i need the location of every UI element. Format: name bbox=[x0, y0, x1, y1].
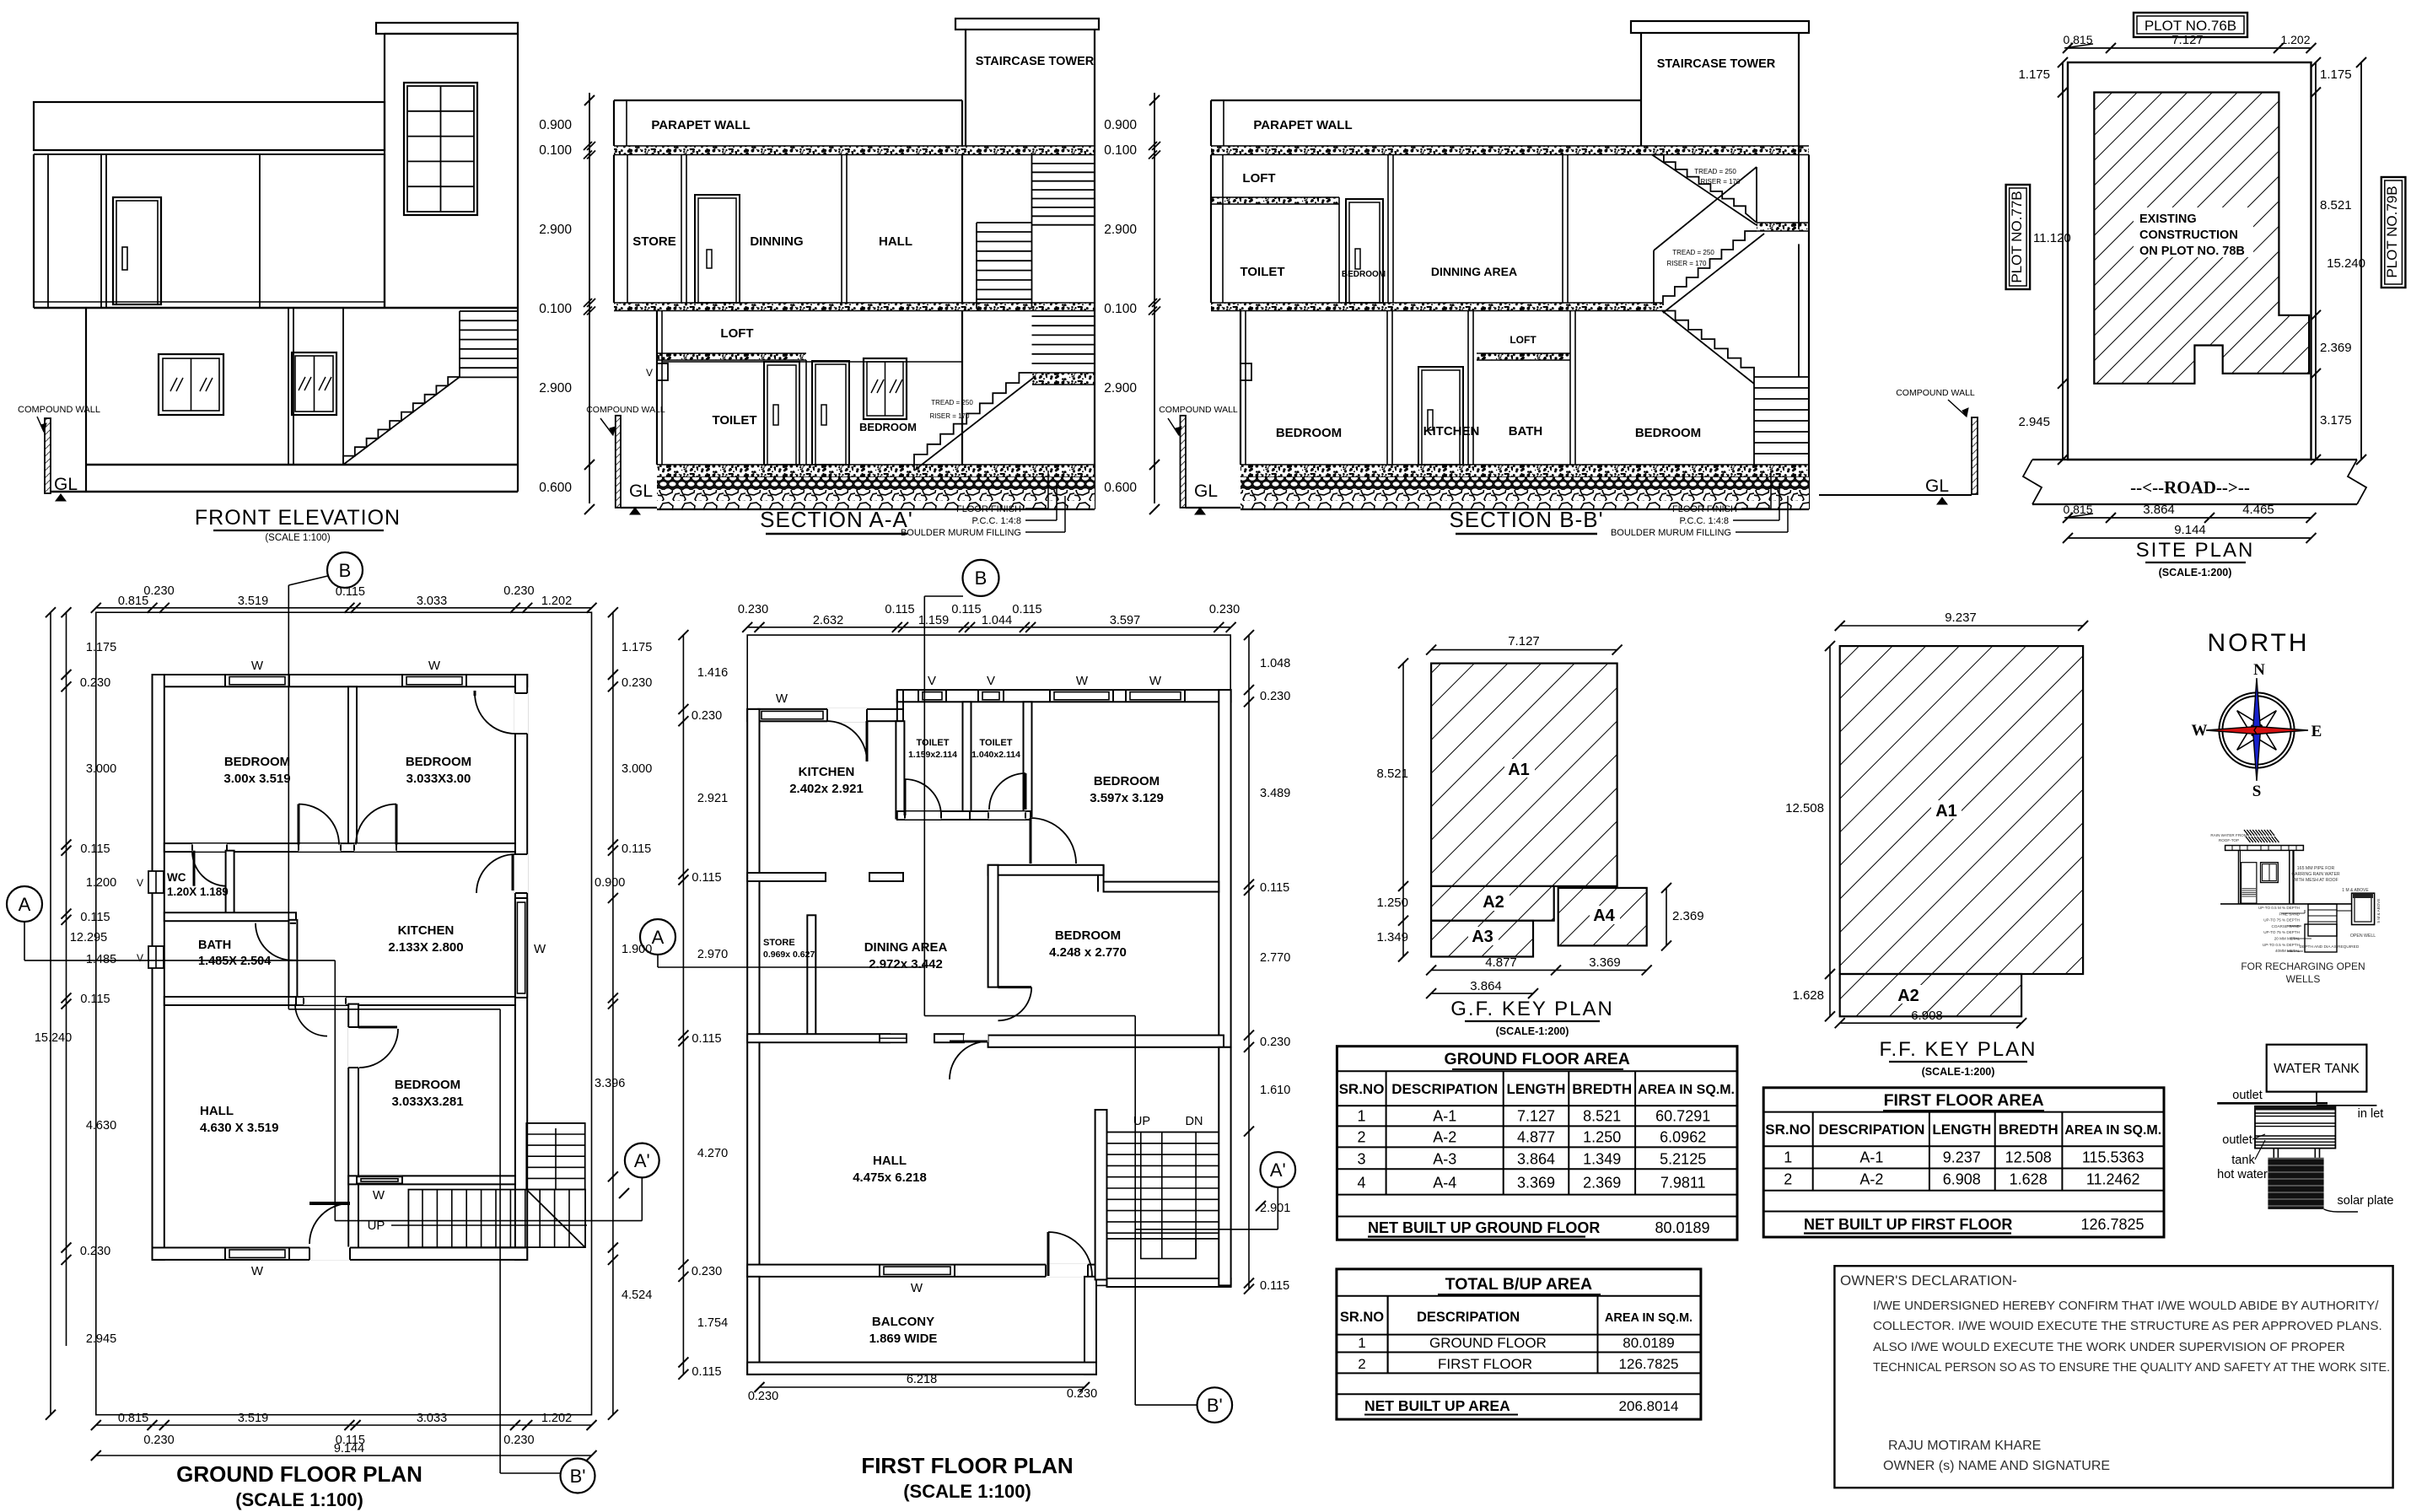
svg-text:tank: tank bbox=[2231, 1154, 2255, 1167]
section line A bbox=[24, 922, 25, 960]
svg-text:BEDROOM: BEDROOM bbox=[1055, 928, 1121, 943]
svg-text:A1: A1 bbox=[1508, 761, 1530, 779]
area A2 ff hatched bbox=[1840, 974, 2021, 1016]
svg-text:1.869 WIDE: 1.869 WIDE bbox=[869, 1332, 938, 1346]
bed2 left wall bbox=[988, 865, 998, 987]
svg-text:BOULDER MURUM FILLING: BOULDER MURUM FILLING bbox=[901, 528, 1021, 538]
svg-text:3: 3 bbox=[1357, 1151, 1365, 1168]
bath door arc bbox=[290, 923, 296, 960]
road strip bbox=[2032, 459, 2357, 460]
svg-text:DEPTH AND DIA AS REQUIRED: DEPTH AND DIA AS REQUIRED bbox=[2300, 944, 2360, 950]
svg-text:OWNER (s) NAME AND SIGNATURE: OWNER (s) NAME AND SIGNATURE bbox=[1883, 1459, 2110, 1473]
left dimension line bbox=[2062, 62, 2064, 460]
svg-text:2.632: 2.632 bbox=[813, 614, 843, 627]
svg-text:7.127: 7.127 bbox=[1508, 634, 1540, 648]
stair landing band bbox=[1032, 373, 1095, 385]
svg-text:2.133X 2.800: 2.133X 2.800 bbox=[388, 940, 463, 955]
dinning door bbox=[695, 195, 740, 303]
svg-text:0.115: 0.115 bbox=[692, 1365, 721, 1379]
svg-text:0.115: 0.115 bbox=[951, 603, 981, 616]
ground floor plan drawing bbox=[7, 552, 659, 1510]
svg-text:2.901: 2.901 bbox=[1260, 1202, 1290, 1215]
svg-text:7.9811: 7.9811 bbox=[1660, 1175, 1706, 1192]
svg-text:LOFT: LOFT bbox=[1242, 171, 1275, 186]
terrace boundary bbox=[747, 635, 1230, 1375]
svg-text:ALSO I/WE WOULD EXECUTE THE WO: ALSO I/WE WOULD EXECUTE THE WORK UNDER S… bbox=[1873, 1340, 2345, 1354]
svg-text:HALL: HALL bbox=[873, 1154, 907, 1168]
window W2 top wall bbox=[402, 674, 466, 687]
svg-text:0.100: 0.100 bbox=[1104, 302, 1137, 316]
svg-text:0.969x 0.627: 0.969x 0.627 bbox=[763, 950, 815, 960]
tower window grid bbox=[404, 83, 477, 215]
svg-text:A2: A2 bbox=[1897, 987, 1919, 1005]
svg-text:2.369: 2.369 bbox=[2320, 341, 2352, 355]
svg-text:6.908: 6.908 bbox=[1911, 1009, 1943, 1023]
existing construction label bbox=[2134, 207, 2253, 257]
svg-text:3.033X3.281: 3.033X3.281 bbox=[391, 1095, 463, 1109]
svg-text:V: V bbox=[137, 952, 143, 964]
hall bottom window bbox=[225, 1247, 289, 1261]
svg-text:0.230: 0.230 bbox=[503, 584, 534, 598]
bed2 bottom wall bbox=[988, 1036, 1224, 1047]
svg-text:3.864: 3.864 bbox=[2143, 503, 2175, 517]
bedroom2 entry door arc bbox=[514, 693, 528, 734]
svg-text:STAIRCASE TOWER: STAIRCASE TOWER bbox=[976, 55, 1095, 68]
tank stand line bbox=[2316, 1092, 2317, 1104]
first floor plan drawing bbox=[640, 560, 1295, 1502]
svg-text:UP-TO 75 % DEPTH: UP-TO 75 % DEPTH bbox=[2263, 930, 2300, 934]
pcc pebble band bbox=[1240, 477, 1809, 490]
stair upper flight stripes bbox=[459, 311, 460, 377]
kitchen entry door right wall bbox=[514, 854, 528, 893]
right dimension lines bbox=[2315, 62, 2317, 460]
svg-text:0.230: 0.230 bbox=[80, 1245, 110, 1258]
dimension column bbox=[1154, 93, 1155, 503]
dim 12.508 left bbox=[1829, 646, 1831, 974]
top dimension chain bbox=[96, 607, 592, 609]
svg-text:0.100: 0.100 bbox=[539, 302, 572, 316]
svg-text:1.485: 1.485 bbox=[86, 953, 116, 966]
svg-text:RAJU MOTIRAM KHARE: RAJU MOTIRAM KHARE bbox=[1888, 1439, 2041, 1453]
area A3 hatched bbox=[1431, 921, 1533, 957]
svg-text:P.C.C. 1:4:8: P.C.C. 1:4:8 bbox=[1680, 516, 1730, 526]
svg-text:0.115: 0.115 bbox=[622, 842, 651, 856]
dim 8.521 left bbox=[1402, 664, 1404, 886]
hot water tank striped bbox=[2255, 1106, 2335, 1149]
svg-text:KITCHEN: KITCHEN bbox=[1423, 424, 1480, 439]
svg-text:2.369: 2.369 bbox=[1672, 909, 1704, 923]
bed3 door arc from lobby bbox=[295, 1004, 327, 1036]
svg-text:CARRING RAIN WATER: CARRING RAIN WATER bbox=[2291, 872, 2340, 877]
svg-text:2.921: 2.921 bbox=[697, 792, 728, 805]
svg-text:W: W bbox=[2192, 722, 2208, 740]
svg-text:8.521: 8.521 bbox=[1583, 1108, 1621, 1125]
svg-text:PLOT NO.77B: PLOT NO.77B bbox=[2009, 191, 2025, 282]
svg-text:KITCHEN: KITCHEN bbox=[398, 923, 455, 938]
svg-text:F.F. KEY PLAN: F.F. KEY PLAN bbox=[1880, 1038, 2037, 1061]
roof slab bbox=[2225, 846, 2304, 851]
svg-text:(SCALE 1:100): (SCALE 1:100) bbox=[903, 1481, 1031, 1502]
svg-text:BALCONY: BALCONY bbox=[872, 1315, 934, 1329]
wall over doors bbox=[662, 361, 962, 363]
section marker B prime ff bbox=[1197, 1387, 1233, 1423]
section line B vertical bbox=[288, 585, 289, 1009]
svg-text:0.115: 0.115 bbox=[80, 911, 110, 924]
outlet line bbox=[2217, 1102, 2328, 1105]
svg-text:0.815: 0.815 bbox=[118, 1412, 148, 1425]
svg-text:EXISTING: EXISTING bbox=[2139, 213, 2197, 226]
ground floor walls bbox=[656, 311, 658, 465]
svg-text:STORE: STORE bbox=[763, 938, 795, 948]
svg-text:206.8014: 206.8014 bbox=[1619, 1398, 1679, 1414]
svg-text:TREAD = 250: TREAD = 250 bbox=[1694, 168, 1736, 175]
right dimension chain bbox=[612, 612, 614, 1414]
dim 1.628 left bbox=[1829, 974, 1831, 1016]
kitchen window right wall bbox=[514, 898, 528, 998]
roof slab band bbox=[614, 146, 1095, 155]
svg-text:0.230: 0.230 bbox=[738, 603, 768, 616]
svg-text:3.000: 3.000 bbox=[86, 762, 116, 776]
svg-text:1: 1 bbox=[1358, 1335, 1365, 1351]
svg-text:COMPOUND WALL: COMPOUND WALL bbox=[1159, 405, 1238, 415]
svg-text:RISER = 170: RISER = 170 bbox=[1667, 260, 1707, 267]
lower floor window 2 bbox=[292, 352, 336, 415]
ventilator wc bbox=[148, 871, 164, 893]
svg-text:A: A bbox=[19, 894, 31, 915]
pcc pebble band bbox=[657, 477, 1095, 490]
toilet2 door arc bbox=[989, 773, 1025, 810]
svg-text:A-1: A-1 bbox=[1433, 1108, 1456, 1125]
svg-text:0.230: 0.230 bbox=[1067, 1387, 1097, 1401]
svg-text:2: 2 bbox=[1784, 1171, 1792, 1188]
section marker A ff bbox=[640, 919, 675, 955]
svg-text:DESCRIPATION: DESCRIPATION bbox=[1417, 1310, 1520, 1325]
svg-text:TOTAL B/UP AREA: TOTAL B/UP AREA bbox=[1445, 1275, 1592, 1294]
svg-text:TREAD = 250: TREAD = 250 bbox=[931, 399, 973, 406]
svg-text:CONSTRUCTION: CONSTRUCTION bbox=[2139, 229, 2238, 242]
svg-text:0.100: 0.100 bbox=[539, 143, 572, 158]
section marker B bbox=[327, 552, 363, 588]
staircase tower bbox=[1631, 21, 1809, 33]
plot 79B label bbox=[2381, 177, 2406, 288]
section line A ff bbox=[657, 955, 659, 967]
svg-text:1.416: 1.416 bbox=[697, 666, 728, 680]
left dimension chain bbox=[50, 612, 51, 1414]
dining hall wall window bbox=[880, 1034, 907, 1042]
svg-text:TREAD = 250: TREAD = 250 bbox=[1672, 249, 1714, 256]
svg-text:1.250: 1.250 bbox=[1583, 1129, 1621, 1146]
svg-text:HALL: HALL bbox=[200, 1104, 234, 1118]
svg-text:I/WE UNDERSIGNED HEREBY CONFIR: I/WE UNDERSIGNED HEREBY CONFIRM THAT I/W… bbox=[1873, 1299, 2379, 1313]
svg-text:4.248 x 2.770: 4.248 x 2.770 bbox=[1049, 945, 1127, 960]
svg-text:DINNING: DINNING bbox=[750, 234, 803, 249]
ground line left bbox=[621, 507, 657, 508]
svg-text:4.475x 6.218: 4.475x 6.218 bbox=[853, 1170, 927, 1185]
svg-text:165 MM PIPE FOR: 165 MM PIPE FOR bbox=[2297, 866, 2335, 871]
svg-text:DN: DN bbox=[1186, 1115, 1203, 1128]
key plan labels bbox=[1504, 759, 1535, 778]
svg-text:W: W bbox=[776, 691, 788, 706]
ff key labels bbox=[1931, 800, 1962, 819]
compass star diagonals bbox=[2252, 711, 2276, 735]
svg-text:4.630 X 3.519: 4.630 X 3.519 bbox=[200, 1121, 278, 1135]
svg-text:0.115: 0.115 bbox=[80, 993, 110, 1006]
svg-text:11.120: 11.120 bbox=[2033, 231, 2071, 245]
svg-text:2.945: 2.945 bbox=[86, 1332, 116, 1346]
upper stair flight B speckled steps bbox=[1663, 231, 1757, 305]
svg-text:KITCHEN: KITCHEN bbox=[799, 765, 855, 779]
svg-text:2.900: 2.900 bbox=[1104, 223, 1137, 237]
svg-text:LENGTH: LENGTH bbox=[1932, 1122, 1991, 1138]
svg-text:1: 1 bbox=[1784, 1149, 1792, 1166]
svg-text:A: A bbox=[652, 927, 665, 948]
external staircase steps bbox=[343, 377, 460, 465]
bed3 entry door arc bbox=[359, 1029, 398, 1068]
ff left dimension chain bbox=[682, 635, 684, 1375]
upper floor door bbox=[113, 197, 161, 304]
svg-text:B': B' bbox=[570, 1466, 586, 1487]
svg-text:--<--ROAD-->--: --<--ROAD-->-- bbox=[2130, 477, 2250, 498]
svg-text:9.237: 9.237 bbox=[1943, 1149, 1981, 1166]
svg-text:WITH MESH AT ROOF: WITH MESH AT ROOF bbox=[2293, 878, 2338, 883]
svg-text:TECHNICAL PERSON SO AS TO ENSU: TECHNICAL PERSON SO AS TO ENSURE THE QUA… bbox=[1873, 1361, 2390, 1375]
ventilator V bbox=[657, 363, 668, 380]
area A1 hatched bbox=[1431, 664, 1617, 886]
svg-text:0.600: 0.600 bbox=[539, 481, 572, 495]
svg-text:0.230: 0.230 bbox=[1260, 690, 1290, 703]
svg-text:3.033X3.00: 3.033X3.00 bbox=[406, 772, 471, 786]
store partition bbox=[807, 915, 815, 1036]
svg-text:WELLS: WELLS bbox=[2286, 973, 2321, 985]
house window bbox=[2261, 863, 2279, 883]
dim 1.250 bbox=[1402, 886, 1404, 921]
svg-text:BEDROOM: BEDROOM bbox=[406, 755, 471, 769]
bedroom door bbox=[812, 361, 849, 465]
wall between bedrooms bbox=[348, 686, 357, 844]
svg-text:0.115: 0.115 bbox=[80, 842, 110, 856]
upper stair flight A steps bbox=[1652, 155, 1757, 223]
svg-text:4.877: 4.877 bbox=[1485, 955, 1517, 970]
svg-text:1.202: 1.202 bbox=[2280, 33, 2310, 46]
svg-text:1.200: 1.200 bbox=[86, 876, 116, 890]
dim 3.369 bottom bbox=[1556, 969, 1647, 971]
section A-A drawing bbox=[539, 19, 1099, 538]
svg-text:0.115: 0.115 bbox=[692, 1032, 721, 1046]
svg-text:0.600: 0.600 bbox=[1104, 481, 1137, 495]
svg-text:HALL: HALL bbox=[879, 234, 912, 249]
svg-text:SECTION B-B': SECTION B-B' bbox=[1449, 507, 1603, 532]
stair stripes upper bbox=[1031, 153, 1033, 309]
loft slab band upper bbox=[1211, 197, 1339, 204]
svg-text:OWNER'S DECLARATION-: OWNER'S DECLARATION- bbox=[1840, 1273, 2017, 1289]
stair enclosure walls bbox=[1095, 1110, 1107, 1280]
balcony door bbox=[1046, 1264, 1088, 1278]
ground floor area table bbox=[1337, 1047, 1737, 1240]
svg-text:STAIRCASE TOWER: STAIRCASE TOWER bbox=[1657, 57, 1776, 71]
upper floor walls bbox=[613, 155, 615, 304]
boulder murum band bbox=[1240, 490, 1809, 509]
svg-text:1.175: 1.175 bbox=[622, 641, 652, 654]
toilet1 door arc bbox=[905, 779, 941, 815]
svg-text:G.F. KEY PLAN: G.F. KEY PLAN bbox=[1450, 998, 1614, 1020]
svg-text:12.508: 12.508 bbox=[2005, 1149, 2052, 1166]
plinth side verticals bbox=[85, 465, 87, 492]
svg-text:1.175: 1.175 bbox=[2320, 67, 2352, 82]
svg-text:0.115: 0.115 bbox=[692, 871, 721, 885]
svg-text:2.900: 2.900 bbox=[1104, 381, 1137, 395]
stair stripes below landing bbox=[1032, 315, 1095, 317]
kitchen entry door bbox=[827, 708, 867, 722]
svg-text:outlet: outlet bbox=[2232, 1089, 2262, 1102]
svg-text:ROOF-TOP: ROOF-TOP bbox=[2219, 838, 2239, 842]
svg-text:4: 4 bbox=[1357, 1175, 1365, 1192]
svg-text:5 M & ABOVE: 5 M & ABOVE bbox=[2376, 899, 2381, 923]
svg-text:0.230: 0.230 bbox=[692, 1265, 722, 1278]
compound wall near site plan bbox=[1972, 417, 1978, 494]
svg-text:A': A' bbox=[1270, 1160, 1286, 1181]
balcony walls bbox=[747, 1277, 759, 1375]
ventilator V gf bbox=[1240, 363, 1251, 380]
gf stair stripes bbox=[1753, 377, 1755, 465]
svg-text:9.237: 9.237 bbox=[1945, 611, 1977, 625]
upper stair landing bbox=[1757, 223, 1809, 231]
svg-text:hot water: hot water bbox=[2217, 1168, 2268, 1181]
svg-text:UP-TO 0.5 % DEPTH: UP-TO 0.5 % DEPTH bbox=[2263, 943, 2300, 947]
stair cut diagonal bbox=[526, 1190, 584, 1248]
svg-text:UP-TO 75 % DEPTH: UP-TO 75 % DEPTH bbox=[2263, 918, 2300, 923]
svg-text:in let: in let bbox=[2358, 1107, 2384, 1121]
svg-text:SR.NO: SR.NO bbox=[1340, 1310, 1384, 1325]
svg-text:3.864: 3.864 bbox=[1470, 979, 1502, 993]
svg-text:15.240: 15.240 bbox=[35, 1031, 72, 1045]
svg-text:S: S bbox=[2252, 783, 2262, 800]
svg-text:PLOT NO.79B: PLOT NO.79B bbox=[2384, 186, 2400, 277]
upper floor walls bbox=[33, 154, 35, 308]
svg-text:RAIN WATER FROM: RAIN WATER FROM bbox=[2210, 833, 2247, 837]
section B-B drawing bbox=[1104, 21, 1978, 538]
svg-text:(SCALE-1:200): (SCALE-1:200) bbox=[1496, 1025, 1569, 1037]
bottom dimension lines bbox=[2068, 517, 2311, 519]
svg-text:A1: A1 bbox=[1935, 802, 1957, 821]
svg-text:2.972x 3.442: 2.972x 3.442 bbox=[869, 957, 943, 971]
svg-text:RISER = 170: RISER = 170 bbox=[1701, 178, 1741, 186]
svg-text:2.402x 2.921: 2.402x 2.921 bbox=[789, 782, 864, 796]
site boundary bbox=[2068, 62, 2311, 460]
wc walls bbox=[226, 851, 234, 914]
svg-text:3.369: 3.369 bbox=[1517, 1175, 1555, 1192]
svg-text:0.230: 0.230 bbox=[503, 1434, 534, 1447]
owners declaration box bbox=[1834, 1266, 2392, 1488]
svg-text:GL: GL bbox=[1925, 476, 1949, 496]
svg-text:LOFT: LOFT bbox=[720, 326, 753, 341]
upper floor walls bbox=[1210, 155, 1212, 304]
svg-text:80.0189: 80.0189 bbox=[1655, 1219, 1709, 1236]
svg-text:A-2: A-2 bbox=[1859, 1171, 1883, 1188]
svg-text:FOR RECHARGING OPEN: FOR RECHARGING OPEN bbox=[2241, 960, 2365, 972]
dim 6.908 bottom bbox=[1840, 1022, 2021, 1024]
svg-text:A-1: A-1 bbox=[1859, 1149, 1883, 1166]
svg-text:UP-TO 0.5 M % DEPTH: UP-TO 0.5 M % DEPTH bbox=[2258, 906, 2300, 910]
ff key plan drawing bbox=[1785, 611, 2088, 1078]
svg-text:3.519: 3.519 bbox=[238, 595, 268, 608]
svg-text:B: B bbox=[339, 560, 352, 581]
left exterior wall bbox=[747, 709, 759, 1277]
svg-text:80.0189: 80.0189 bbox=[1623, 1335, 1674, 1351]
svg-text:GL: GL bbox=[54, 475, 78, 494]
bedroom2 door arc bbox=[356, 804, 396, 845]
svg-text:GL: GL bbox=[1194, 482, 1218, 501]
svg-text:GROUND FLOOR PLAN: GROUND FLOOR PLAN bbox=[176, 1461, 422, 1487]
top dimension line bbox=[2068, 47, 2311, 49]
svg-text:5.2125: 5.2125 bbox=[1660, 1151, 1706, 1168]
svg-text:2.369: 2.369 bbox=[1583, 1175, 1621, 1192]
svg-text:E: E bbox=[2311, 723, 2322, 740]
area A4 hatched bbox=[1558, 888, 1647, 946]
svg-text:FLOOR FINISH: FLOOR FINISH bbox=[1672, 504, 1737, 514]
site plan drawing bbox=[2006, 13, 2406, 578]
svg-text:SITE PLAN: SITE PLAN bbox=[2136, 539, 2255, 562]
bed3 bottom wall bbox=[348, 1176, 515, 1184]
svg-text:3.033: 3.033 bbox=[417, 595, 447, 608]
svg-text:0.100: 0.100 bbox=[1104, 143, 1137, 158]
svg-text:1.250: 1.250 bbox=[1376, 896, 1408, 910]
parapet band upper bbox=[34, 102, 385, 150]
hall exit door bbox=[309, 1247, 350, 1261]
dim 2.369 right bbox=[1666, 888, 1667, 946]
svg-text:FIRST FLOOR: FIRST FLOOR bbox=[1438, 1356, 1532, 1372]
svg-text:1: 1 bbox=[1357, 1108, 1365, 1125]
svg-text:BATH: BATH bbox=[198, 939, 231, 952]
plot boundary bbox=[96, 612, 592, 1414]
compound wall section bbox=[616, 416, 621, 508]
svg-text:4.465: 4.465 bbox=[2242, 503, 2274, 517]
plinth line bbox=[86, 464, 518, 465]
gf stair right bbox=[1662, 311, 1754, 378]
parapet wall bbox=[1211, 100, 1641, 101]
recharging open wells detail bbox=[2210, 830, 2381, 985]
svg-text:(SCALE 1:100): (SCALE 1:100) bbox=[235, 1489, 363, 1510]
svg-text:PARAPET WALL: PARAPET WALL bbox=[1253, 118, 1352, 132]
svg-text:126.7825: 126.7825 bbox=[2080, 1216, 2144, 1233]
svg-text:STORE: STORE bbox=[632, 234, 675, 249]
svg-text:1.610: 1.610 bbox=[1260, 1084, 1290, 1097]
svg-text:BOULDER MURUM FILLING: BOULDER MURUM FILLING bbox=[1611, 528, 1731, 538]
gf stair flight with steps bbox=[914, 373, 1032, 465]
tank legs bbox=[2273, 1149, 2274, 1158]
svg-text:FLOOR FINISH: FLOOR FINISH bbox=[956, 504, 1021, 514]
window W3 bbox=[1050, 689, 1113, 702]
bath walls bbox=[288, 920, 297, 998]
svg-text:FINE SAND: FINE SAND bbox=[2279, 912, 2300, 916]
svg-text:N: N bbox=[2253, 661, 2265, 679]
middle horizontal wall bbox=[164, 843, 515, 852]
boulder murum band bbox=[657, 490, 1095, 509]
svg-text:1.044: 1.044 bbox=[982, 614, 1012, 627]
svg-text:GROUND FLOOR AREA: GROUND FLOOR AREA bbox=[1445, 1050, 1630, 1068]
svg-text:3.489: 3.489 bbox=[1260, 787, 1290, 800]
dim 7.127 top bbox=[1431, 649, 1617, 651]
svg-text:6.908: 6.908 bbox=[1943, 1171, 1981, 1188]
svg-text:(SCALE-1:200): (SCALE-1:200) bbox=[1922, 1066, 1995, 1078]
svg-text:3.033: 3.033 bbox=[417, 1412, 447, 1425]
ventilator V1 bbox=[918, 689, 946, 702]
svg-text:BEDROOM: BEDROOM bbox=[1635, 426, 1701, 440]
ventilator V2 bbox=[978, 689, 1004, 702]
svg-text:0.230: 0.230 bbox=[80, 676, 110, 690]
svg-text:BEDROOM: BEDROOM bbox=[1276, 426, 1342, 440]
svg-text:A-2: A-2 bbox=[1433, 1129, 1456, 1146]
bedroom door upper bbox=[1346, 199, 1383, 303]
